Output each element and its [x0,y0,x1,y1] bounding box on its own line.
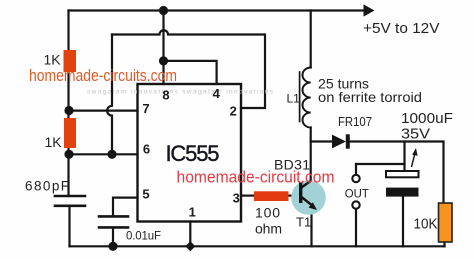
svg-text:on ferrite torroid: on ferrite torroid [318,89,422,105]
svg-text:1: 1 [189,205,196,220]
svg-text:7: 7 [142,101,149,116]
svg-text:BD31: BD31 [274,156,310,172]
svg-text:1K: 1K [44,52,62,68]
svg-text:T1: T1 [296,215,311,230]
svg-text:FR107: FR107 [338,114,372,129]
svg-text:6: 6 [143,142,150,157]
svg-text:0.01uF: 0.01uF [126,231,161,243]
svg-text:1000uF: 1000uF [401,110,453,127]
svg-text:10K: 10K [414,217,438,233]
svg-text:homemade-circuit.com: homemade-circuit.com [177,169,335,187]
svg-text:homemade-circuits.com: homemade-circuits.com [29,67,177,85]
svg-text:4: 4 [213,86,221,101]
svg-text:100: 100 [255,205,280,221]
svg-text:680pF: 680pF [25,179,69,194]
svg-text:3: 3 [233,191,240,206]
svg-text:ohm: ohm [255,221,282,237]
svg-text:2: 2 [230,104,237,119]
svg-text:IC555: IC555 [166,141,220,166]
svg-text:swagatam innovations swagatam: swagatam innovations swagatam innovation… [87,89,274,96]
svg-text:L1: L1 [287,92,301,106]
svg-text:35V: 35V [401,126,430,143]
svg-text:1K: 1K [45,134,63,150]
svg-text:5: 5 [142,187,149,202]
svg-text:OUT: OUT [345,186,370,200]
svg-text:8: 8 [162,88,169,103]
svg-text:+5V to 12V: +5V to 12V [363,20,440,37]
